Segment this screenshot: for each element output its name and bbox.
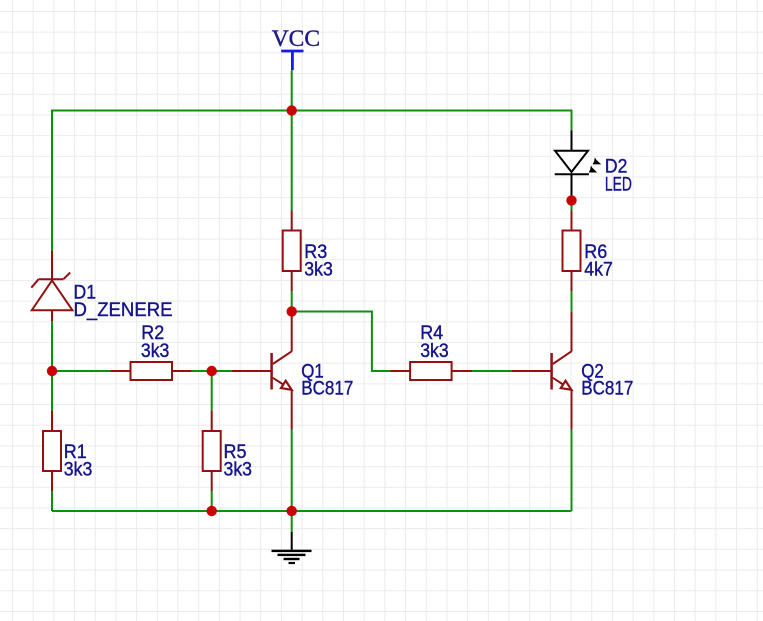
diode D2 LED bbox=[555, 131, 589, 201]
wire node A to R2 bbox=[52, 370, 110, 372]
svg-text:BC817: BC817 bbox=[301, 378, 353, 399]
LED light arrow 1 bbox=[593, 157, 602, 164]
transistor Q2 BC817 bbox=[512, 312, 572, 430]
wire top horizontal VCC rail bbox=[52, 110, 572, 112]
resistor R3 bbox=[283, 211, 301, 292]
svg-text:3k3: 3k3 bbox=[304, 259, 333, 280]
svg-text:3k3: 3k3 bbox=[141, 341, 170, 362]
wire right vertical lower (Q2 emitter to bottom rail) bbox=[571, 430, 573, 512]
svg-text:VCC: VCC bbox=[272, 26, 320, 52]
diode D1 (zener) bbox=[31, 251, 72, 321]
wire left vertical upper (VCC rail to D1) bbox=[51, 110, 53, 252]
wire left vertical lower (R1 to bottom rail) bbox=[51, 491, 53, 511]
junction node B R3 / Q1 collector / link bbox=[287, 306, 297, 316]
wire right (D2 to R6) bbox=[571, 200, 573, 210]
wire center (Q1 emitter to bottom rail) bbox=[291, 430, 293, 512]
svg-text:BC817: BC817 bbox=[581, 378, 633, 399]
junction node R5 / ground rail bbox=[207, 506, 217, 516]
wire ground stub (bottom rail to GND symbol) bbox=[291, 511, 293, 533]
wire right vertical (top rail to D2) bbox=[571, 110, 573, 131]
transistor Q1 BC817 bbox=[232, 312, 292, 430]
wire center (top rail to R3) bbox=[291, 111, 293, 211]
wire right (R6 to Q2 collector) bbox=[571, 291, 573, 312]
wire R5 to bottom rail bbox=[211, 491, 213, 511]
resistor R6 bbox=[563, 211, 581, 292]
ground symbol bbox=[272, 532, 312, 564]
wire center (R3 to node B) bbox=[291, 291, 293, 312]
wire left vertical (D1 to node A) bbox=[51, 321, 53, 371]
resistor R5 bbox=[203, 411, 221, 491]
wire R2 to node C bbox=[192, 370, 232, 372]
wire bottom horizontal ground rail bbox=[52, 510, 572, 512]
wire node B to R4 (feedback link) bbox=[292, 312, 390, 372]
svg-text:LED: LED bbox=[605, 174, 632, 195]
wire node C to R5 bbox=[211, 371, 213, 411]
junction node A D1 / R2 / R1 bbox=[47, 366, 57, 376]
wire left vertical (node A to R1) bbox=[51, 371, 53, 411]
junction node VCC rail / R3 bbox=[287, 105, 297, 115]
junction node ground rail / GND bbox=[287, 506, 297, 516]
junction node D2 / R6 bbox=[566, 195, 576, 205]
power symbol VCC bbox=[281, 51, 303, 70]
wire VCC stub to top rail bbox=[291, 70, 293, 110]
svg-text:D_ZENERE: D_ZENERE bbox=[74, 300, 173, 321]
wire R4 to Q2 base bbox=[472, 370, 512, 372]
junction node C R2 / R5 / Q1 base bbox=[207, 366, 217, 376]
resistor R2 bbox=[110, 362, 191, 380]
svg-text:3k3: 3k3 bbox=[420, 341, 449, 362]
resistor R1 bbox=[43, 411, 61, 491]
LED light arrow 2 bbox=[589, 166, 598, 173]
svg-text:3k3: 3k3 bbox=[224, 460, 253, 481]
svg-text:4k7: 4k7 bbox=[584, 259, 613, 280]
resistor R4 bbox=[390, 362, 472, 380]
svg-text:3k3: 3k3 bbox=[64, 460, 93, 481]
